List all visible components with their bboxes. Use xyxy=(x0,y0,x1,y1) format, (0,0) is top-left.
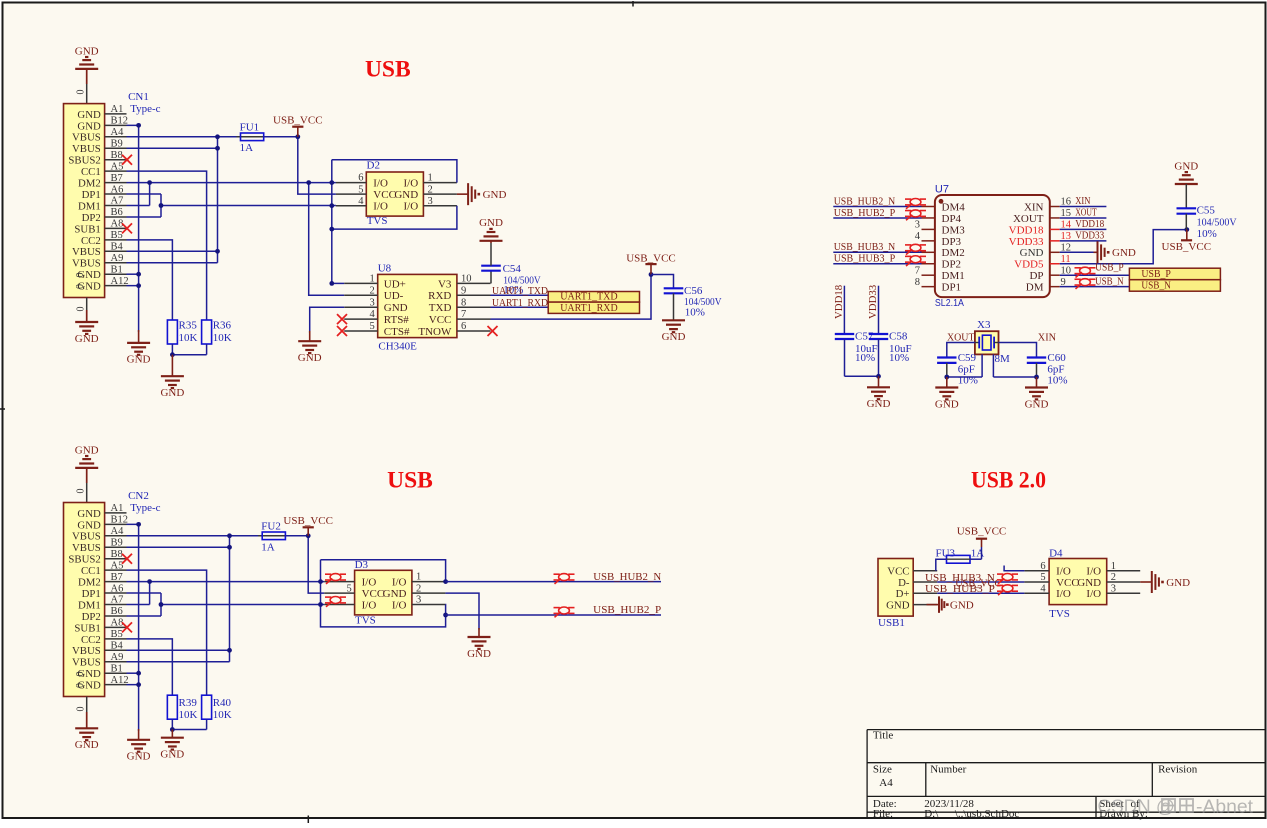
svg-text:\..\usb.SchDoc: \..\usb.SchDoc xyxy=(955,808,1020,820)
svg-text:B6: B6 xyxy=(111,606,123,617)
svg-text:VBUS: VBUS xyxy=(72,246,101,258)
svg-text:DM1: DM1 xyxy=(78,200,101,212)
wire D2 pin1 loop rail xyxy=(332,160,457,183)
watermark CSDN xyxy=(1098,796,1254,817)
svg-text:GND: GND xyxy=(384,302,408,314)
wire D2 pin3 loop rail xyxy=(332,206,457,229)
svg-text:5: 5 xyxy=(370,321,375,332)
wire R39/R40 to GND xyxy=(171,719,173,729)
svg-text:4: 4 xyxy=(370,309,376,320)
svg-text:DM: DM xyxy=(1026,282,1044,294)
wire D3 pin1 to USB_HUB2_N xyxy=(443,579,448,584)
wire U8 RXD to port xyxy=(491,294,549,296)
svg-text:CC2: CC2 xyxy=(81,235,101,247)
CN1 pin A6 (DP1) xyxy=(105,193,127,195)
svg-text:VDD33: VDD33 xyxy=(1009,236,1044,248)
wire VBUS net (CN2) xyxy=(127,535,263,537)
CN1 pin A9 (VBUS) xyxy=(105,262,127,264)
ground GND above CN1 xyxy=(86,69,88,84)
wire U8 GND pin3 xyxy=(310,307,345,333)
svg-text:GND: GND xyxy=(127,751,151,763)
svg-text:B9: B9 xyxy=(111,537,123,548)
CN2 pin B8 (SBUS2) xyxy=(105,558,127,560)
svg-text:1: 1 xyxy=(1111,561,1116,572)
svg-text:0: 0 xyxy=(76,489,87,494)
ground GND below D3 xyxy=(478,628,480,637)
svg-text:VDD33: VDD33 xyxy=(867,285,879,319)
svg-text:DP2: DP2 xyxy=(82,611,101,623)
svg-text:DP4: DP4 xyxy=(942,213,962,225)
svg-text:10%: 10% xyxy=(889,352,909,364)
svg-text:B1: B1 xyxy=(111,264,123,275)
svg-text:8: 8 xyxy=(461,297,466,308)
wire CC1 to R36 xyxy=(127,171,207,320)
svg-text:A4: A4 xyxy=(111,127,125,138)
svg-text:C58: C58 xyxy=(889,331,908,343)
capacitor C56 xyxy=(664,287,684,289)
svg-text:3: 3 xyxy=(370,297,375,308)
ground GND at CN2 bus xyxy=(138,729,140,740)
CN1 pin B9 (VBUS) xyxy=(105,147,127,149)
svg-text:USB_HUB2_N: USB_HUB2_N xyxy=(593,571,661,583)
D3 pin 5 / 2 xyxy=(324,592,354,594)
ground GND above C54 xyxy=(490,241,492,243)
svg-text:GND: GND xyxy=(77,519,101,531)
TVS diode D4 xyxy=(1049,559,1107,605)
svg-text:B6: B6 xyxy=(111,207,123,218)
CN1 pin B12 (GND) xyxy=(105,124,127,126)
svg-text:10K: 10K xyxy=(179,332,198,344)
svg-text:B8: B8 xyxy=(111,549,123,560)
svg-text:USB_N: USB_N xyxy=(1141,280,1171,292)
svg-text:VCC: VCC xyxy=(429,314,452,326)
D2 pin 5 / 2 xyxy=(336,193,366,195)
svg-text:DM1: DM1 xyxy=(942,270,965,282)
svg-text:SUB1: SUB1 xyxy=(74,223,100,235)
svg-text:GND: GND xyxy=(1112,247,1136,259)
svg-text:A4: A4 xyxy=(111,526,125,537)
svg-text:10: 10 xyxy=(461,274,472,285)
wire FU2 to USB_VCC xyxy=(285,535,308,537)
svg-text:A6: A6 xyxy=(111,184,124,195)
svg-text:Size: Size xyxy=(873,763,892,775)
svg-text:USB_HUB2_P: USB_HUB2_P xyxy=(834,208,896,219)
svg-text:R36: R36 xyxy=(213,320,232,332)
ground GND below C57/C58 xyxy=(878,376,880,387)
resistor R35 xyxy=(167,320,177,344)
CN2 pin B4 (VBUS) xyxy=(105,649,127,651)
no-ERC X on CN1 pin B8 xyxy=(122,155,132,165)
wire USB_P xyxy=(1060,274,1130,276)
CN1 pin B5 (CC2) xyxy=(105,239,127,241)
wire USB1 VCC to FU3 xyxy=(936,559,947,571)
svg-text:5: 5 xyxy=(358,184,363,195)
svg-text:1A: 1A xyxy=(261,542,275,554)
wire FU1 to USB_VCC xyxy=(264,136,298,138)
svg-text:B5: B5 xyxy=(111,629,123,640)
svg-text:7: 7 xyxy=(915,265,920,276)
svg-text:UART1_TXD: UART1_TXD xyxy=(560,291,618,303)
svg-text:DM3: DM3 xyxy=(942,224,966,236)
wire USB_HUB2_N into U7 xyxy=(833,206,921,208)
svg-text:GND: GND xyxy=(1020,247,1044,259)
svg-text:B5: B5 xyxy=(111,230,123,241)
svg-text:FU2: FU2 xyxy=(261,520,281,532)
svg-text:2: 2 xyxy=(416,583,421,594)
svg-text:CN1: CN1 xyxy=(128,91,149,103)
svg-text:GND: GND xyxy=(127,354,151,366)
USB1 pin D+ xyxy=(913,592,937,594)
diff-pair marks at D4 xyxy=(1002,574,1013,581)
wire DM net (DM2/DM1 to D2) xyxy=(127,182,336,184)
svg-text:B12: B12 xyxy=(111,515,129,526)
svg-text:USB_N: USB_N xyxy=(1095,276,1124,287)
svg-text:D+: D+ xyxy=(896,588,910,600)
svg-text:USB: USB xyxy=(387,468,433,494)
svg-text:USB_HUB2_P: USB_HUB2_P xyxy=(593,604,661,616)
svg-text:D3: D3 xyxy=(355,559,369,571)
ground GND at CN1 bus xyxy=(138,330,140,343)
svg-text:Type-c: Type-c xyxy=(130,103,160,115)
fuse FU1 xyxy=(237,136,268,138)
svg-text:UD-: UD- xyxy=(384,290,404,302)
ground GND below C59 xyxy=(946,377,948,388)
svg-text:0: 0 xyxy=(76,707,87,712)
no-ERC X on U8 RTS# xyxy=(337,314,347,324)
svg-text:I/O: I/O xyxy=(1056,588,1071,600)
svg-text:GND: GND xyxy=(75,45,99,57)
port USB_N xyxy=(1129,280,1220,292)
svg-text:C60: C60 xyxy=(1047,352,1066,364)
svg-text:XIN: XIN xyxy=(1024,201,1044,213)
svg-text:GND: GND xyxy=(77,109,101,121)
ground GND below R35 xyxy=(171,355,173,377)
power USB_VCC (bottom left) xyxy=(307,527,309,536)
svg-text:8: 8 xyxy=(915,277,920,288)
svg-text:DP1: DP1 xyxy=(82,189,101,201)
CN1 pin A7 (DM1) xyxy=(105,205,127,207)
ground GND below C56 xyxy=(662,319,685,321)
svg-text:4: 4 xyxy=(915,231,921,242)
CN2 pin A8 (SUB1) xyxy=(105,626,127,628)
port USB_P xyxy=(1129,268,1220,280)
svg-text:GND: GND xyxy=(662,331,686,343)
svg-text:SBUS2: SBUS2 xyxy=(68,155,100,167)
connector USB1 xyxy=(878,559,913,617)
svg-text:TVS: TVS xyxy=(1049,608,1070,620)
svg-text:6: 6 xyxy=(358,173,363,184)
border tick top xyxy=(632,1,634,7)
svg-text:DP2: DP2 xyxy=(942,259,962,271)
wire USB_VCC down to D2 VCC xyxy=(298,139,336,194)
wire USB_VCC down to D3 VCC xyxy=(308,538,324,593)
fuse FU3 xyxy=(947,555,971,563)
svg-text:VBUS: VBUS xyxy=(72,258,101,270)
svg-text:Type-c: Type-c xyxy=(130,502,160,514)
svg-text:2: 2 xyxy=(428,184,433,195)
svg-text:U8: U8 xyxy=(378,262,392,274)
CN2 pin A1 (GND) xyxy=(105,512,127,514)
svg-text:XIN: XIN xyxy=(1075,196,1091,207)
svg-text:TVS: TVS xyxy=(367,215,388,227)
U7 right pin 16 (XIN) xyxy=(1050,206,1060,208)
U7 left pin 1 (DM4) xyxy=(922,206,935,208)
svg-text:VBUS: VBUS xyxy=(72,132,101,144)
no-ERC X on CN1 pin A8 xyxy=(122,223,132,233)
svg-text:GND: GND xyxy=(160,387,184,399)
wire FU3 to USB_VCC xyxy=(970,558,982,560)
ground GND above CN2 xyxy=(86,468,88,483)
svg-text:GND: GND xyxy=(467,648,491,660)
svg-text:3: 3 xyxy=(428,196,433,207)
svg-text:1A: 1A xyxy=(971,547,985,559)
svg-text:C57: C57 xyxy=(855,331,874,343)
svg-text:UART1_RXD: UART1_RXD xyxy=(560,302,618,314)
svg-text:A1: A1 xyxy=(111,503,124,514)
wire vertical to U8 UD+ xyxy=(331,160,333,284)
svg-text:10%: 10% xyxy=(958,374,978,386)
svg-text:GND: GND xyxy=(77,120,101,132)
svg-text:4: 4 xyxy=(1040,583,1046,594)
svg-text:USB_VCC: USB_VCC xyxy=(955,577,1001,589)
CN2 pin A9 (VBUS) xyxy=(105,661,127,663)
svg-text:6: 6 xyxy=(1040,561,1045,572)
capacitor C59 xyxy=(937,356,956,358)
CN1 pin A4 (VBUS) xyxy=(105,136,127,138)
U8 pin 2 (UD-) / pin 9 (RXD) xyxy=(344,294,378,296)
svg-text:VBUS: VBUS xyxy=(72,143,101,155)
svg-text:UART1_RXD: UART1_RXD xyxy=(492,298,548,309)
resistor R36 xyxy=(202,320,212,344)
wire D3 loop rails xyxy=(321,560,446,582)
ground GND at USB1 GND pin xyxy=(927,604,940,606)
svg-text:5: 5 xyxy=(1040,572,1045,583)
capacitor C55 xyxy=(1185,184,1187,208)
svg-text:D-: D- xyxy=(898,577,910,589)
svg-text:I/O: I/O xyxy=(392,599,407,611)
wire XIN xyxy=(1060,206,1107,208)
capacitor C60 xyxy=(1027,356,1046,358)
wire GND bus right of CN2 xyxy=(127,523,139,525)
U7 left pin 6 (DP2) xyxy=(922,263,935,265)
CN2 pin A4 (VBUS) xyxy=(105,535,127,537)
svg-text:GND: GND xyxy=(75,333,99,345)
wire DP net (DP1/DP2 to D2) xyxy=(127,193,162,195)
CN1 pin B8 (SBUS2) xyxy=(105,159,127,161)
svg-text:USB_VCC: USB_VCC xyxy=(957,526,1007,538)
svg-text:0: 0 xyxy=(76,307,87,312)
svg-text:GND: GND xyxy=(1166,577,1190,589)
CN2 pin B12 (GND) xyxy=(105,523,127,525)
svg-text:GND: GND xyxy=(483,189,507,201)
svg-text:TVS: TVS xyxy=(355,615,376,627)
svg-text:1: 1 xyxy=(428,173,433,184)
wire VBUS net xyxy=(127,136,241,138)
svg-text:B7: B7 xyxy=(111,572,123,583)
resistor R39 xyxy=(167,695,177,719)
ground GND below C60 xyxy=(1036,377,1038,388)
svg-text:CH340E: CH340E xyxy=(378,340,417,352)
svg-text:USB_P: USB_P xyxy=(1141,268,1171,280)
wire C57/C58 to GND xyxy=(844,339,846,376)
svg-text:VDD18: VDD18 xyxy=(1009,224,1044,236)
D4 pin 5 / 2 xyxy=(1024,581,1049,583)
U7 left pin 8 (DP1) xyxy=(922,286,935,288)
svg-text:A9: A9 xyxy=(111,253,124,264)
svg-text:R40: R40 xyxy=(213,697,232,709)
IC U8 CH340E xyxy=(378,274,457,337)
wire U7 GND pin12 xyxy=(1060,251,1094,253)
svg-text:DM1: DM1 xyxy=(78,599,101,611)
wire stub D4 pin6 xyxy=(1003,570,1024,572)
svg-text:USB: USB xyxy=(365,57,411,83)
svg-text:VDD18: VDD18 xyxy=(1075,219,1104,230)
CN1 pin B6 (DP2) xyxy=(105,216,127,218)
CN2 pin B9 (VBUS) xyxy=(105,546,127,548)
svg-text:I/O: I/O xyxy=(404,201,419,213)
svg-text:5: 5 xyxy=(347,583,352,594)
svg-text:DP1: DP1 xyxy=(82,588,101,600)
svg-text:1A: 1A xyxy=(240,142,254,154)
wire DP net (CN2 to D3) xyxy=(127,592,162,594)
svg-text:GND: GND xyxy=(867,398,891,410)
svg-text:B9: B9 xyxy=(111,138,123,149)
svg-text:GND: GND xyxy=(479,217,503,229)
wire CC2 to R39 xyxy=(127,639,173,695)
CN2 pin A12 (GND) xyxy=(105,684,127,686)
svg-text:10K: 10K xyxy=(179,709,198,721)
svg-text:D4: D4 xyxy=(1049,547,1063,559)
ground GND above C55 xyxy=(1175,183,1198,185)
svg-text:V3: V3 xyxy=(438,278,452,290)
U7 right pin 12 (GND) xyxy=(1050,251,1060,253)
svg-text:DP1: DP1 xyxy=(942,282,962,294)
U8 pin 5 (CTS#) / pin 6 (TNOW) xyxy=(344,330,378,332)
svg-text:GND: GND xyxy=(394,189,418,201)
svg-text:GND: GND xyxy=(298,352,322,364)
wire XOUT to C59 xyxy=(947,343,975,358)
connector CN2 Type-c xyxy=(64,503,105,697)
svg-text:DM2: DM2 xyxy=(78,178,101,190)
svg-text:10%: 10% xyxy=(1047,374,1067,386)
CN1 pin B7 (DM2) xyxy=(105,182,127,184)
wire VDD33 xyxy=(1060,240,1107,242)
svg-text:Revision: Revision xyxy=(1158,763,1198,775)
svg-text:FU1: FU1 xyxy=(240,121,260,133)
svg-text:3: 3 xyxy=(416,595,421,606)
svg-text:GND: GND xyxy=(886,600,910,612)
svg-text:I/O: I/O xyxy=(1056,566,1071,578)
U8 pin 1 (UD+) / pin 10 (V3) xyxy=(344,282,378,284)
svg-text:USB_VCC: USB_VCC xyxy=(273,114,323,126)
svg-text:UD+: UD+ xyxy=(384,278,406,290)
svg-text:VBUS: VBUS xyxy=(72,645,101,657)
wire U8 VCC to USB_VCC xyxy=(491,275,652,320)
svg-text:X3: X3 xyxy=(977,319,991,331)
svg-text:VBUS: VBUS xyxy=(72,657,101,669)
D2 pin 4 / 3 xyxy=(336,205,366,207)
wire USB_HUB2_P into U7 xyxy=(833,217,921,219)
svg-text:10%: 10% xyxy=(1197,228,1217,240)
svg-text:GND: GND xyxy=(160,749,184,761)
svg-text:0: 0 xyxy=(75,284,86,289)
svg-text:Title: Title xyxy=(873,730,894,742)
svg-text:I/O: I/O xyxy=(362,577,377,589)
wire CC2 to R35 xyxy=(127,240,173,320)
svg-text:2: 2 xyxy=(1111,572,1116,583)
svg-text:I/O: I/O xyxy=(392,577,407,589)
wire crystal case grounds xyxy=(981,354,983,377)
svg-text:R35: R35 xyxy=(179,320,198,332)
svg-text:XOUT: XOUT xyxy=(947,332,975,343)
svg-text:USB_VCC: USB_VCC xyxy=(1162,241,1212,253)
U8 pin 3 (GND) / pin 8 (TXD) xyxy=(344,306,378,308)
svg-text:C54: C54 xyxy=(503,263,522,275)
svg-text:I/O: I/O xyxy=(404,178,419,190)
svg-text:CN2: CN2 xyxy=(128,490,149,502)
title block xyxy=(867,729,1264,731)
CN2 pin A6 (DP1) xyxy=(105,592,127,594)
svg-text:C55: C55 xyxy=(1197,205,1216,217)
svg-text:A5: A5 xyxy=(111,161,124,172)
CN2 pin A5 (CC1) xyxy=(105,569,127,571)
power USB_VCC (top left) xyxy=(297,127,299,137)
wire U8 TXD to port xyxy=(491,306,549,308)
wire XIN to C60 xyxy=(999,343,1037,358)
no-ERC X on CN2 pin B8 xyxy=(122,554,132,564)
svg-text:TXD: TXD xyxy=(429,302,452,314)
ground GND at D4 pin2 xyxy=(1140,581,1152,583)
wire USB1 D+ to D4 xyxy=(937,592,1024,594)
svg-text:USB_VCC: USB_VCC xyxy=(626,252,676,264)
connector CN1 Type-c xyxy=(64,104,105,298)
svg-text:B12: B12 xyxy=(111,116,129,127)
svg-text:10K: 10K xyxy=(213,709,232,721)
svg-text:1: 1 xyxy=(416,572,421,583)
no-ERC X on CN2 pin A8 xyxy=(122,622,132,632)
power USB_VCC (mid) xyxy=(650,264,652,274)
svg-text:RTS#: RTS# xyxy=(384,314,410,326)
capacitor C57 xyxy=(835,333,854,335)
U7 left pin 4 (DP3) xyxy=(922,240,935,242)
svg-text:DM2: DM2 xyxy=(942,247,965,259)
svg-text:GND: GND xyxy=(1174,160,1198,172)
svg-text:GND: GND xyxy=(935,398,959,410)
D3 pin 4 / 3 xyxy=(324,604,354,606)
svg-text:A8: A8 xyxy=(111,618,124,629)
svg-text:A8: A8 xyxy=(111,219,124,230)
svg-text:A4: A4 xyxy=(879,777,893,789)
CN1 pin B4 (VBUS) xyxy=(105,250,127,252)
svg-text:104/500V: 104/500V xyxy=(1197,216,1237,228)
svg-text:USB_P: USB_P xyxy=(1095,263,1124,274)
svg-text:C59: C59 xyxy=(958,352,977,364)
wire D3 pin3 to USB_HUB2_P xyxy=(444,605,446,616)
svg-text:USB_HUB2_N: USB_HUB2_N xyxy=(834,196,896,207)
wire R35/R36 to GND xyxy=(171,344,173,355)
svg-text:GND: GND xyxy=(75,444,99,456)
wire D3 pin2 GND xyxy=(445,593,479,629)
svg-text:A1: A1 xyxy=(111,104,124,115)
D4 pin 4 / 3 xyxy=(1024,592,1049,594)
ground GND below CN2 xyxy=(86,697,88,713)
CN1 pin B1 (GND) xyxy=(105,273,127,275)
power USB_VCC (inverted, right) xyxy=(1186,230,1188,240)
svg-text:VBUS: VBUS xyxy=(72,542,101,554)
wire XOUT xyxy=(1060,217,1107,219)
no-ERC X on U8 TNOW xyxy=(488,326,498,336)
svg-text:I/O: I/O xyxy=(1086,588,1101,600)
